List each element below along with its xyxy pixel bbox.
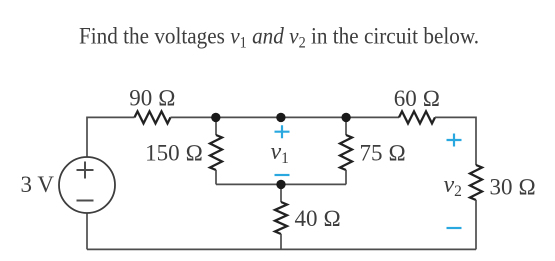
- svg-text:3 V: 3 V: [21, 172, 55, 197]
- wire: top rail middle segment (90ohm to 60ohm): [171, 116, 400, 118]
- svg-text:75 Ω: 75 Ω: [360, 141, 406, 166]
- svg-text:v2: v2: [444, 172, 462, 200]
- wire: middle rail: [216, 183, 346, 185]
- node: junction dot A (top rail / 150ohm): [211, 113, 220, 122]
- resistor R=30ohm (vertical zigzag): [470, 165, 482, 200]
- voltage source 3V (circle): [59, 157, 115, 213]
- node: junction dot C (top rail / 75ohm): [341, 113, 350, 122]
- svg-text:90 Ω: 90 Ω: [129, 86, 175, 111]
- wire: left rail bottom (bottom rail up to source): [86, 213, 88, 249]
- label v2 plus sign: [447, 134, 462, 147]
- svg-text:150 Ω: 150 Ω: [145, 141, 203, 166]
- wire: top rail right segment + right rail down to 30ohm: [435, 117, 476, 165]
- wire: 150ohm branch bottom lead: [215, 170, 217, 184]
- node: junction dot B (top rail / v1 plus): [276, 113, 285, 122]
- wire: right rail bottom (30ohm to bottom rail): [475, 200, 477, 249]
- svg-text:v1: v1: [271, 139, 289, 167]
- node: junction dot D (middle rail / 40ohm): [276, 180, 285, 189]
- svg-text:Find the voltages v1 and v2 in: Find the voltages v1 and v2 in the circu…: [79, 23, 479, 52]
- resistor R=75ohm (vertical zigzag): [340, 135, 352, 170]
- title: problem statement: [79, 23, 479, 52]
- svg-text:30 Ω: 30 Ω: [490, 175, 536, 200]
- wire: bottom rail: [87, 248, 476, 250]
- resistor R=60ohm (horizontal zigzag): [399, 111, 435, 123]
- wire: 40ohm branch top lead: [280, 184, 282, 202]
- wire: 150ohm branch top lead: [215, 117, 217, 135]
- label + inside source: [77, 162, 94, 179]
- wire: 40ohm branch bottom lead: [280, 234, 282, 249]
- svg-text:60 Ω: 60 Ω: [394, 86, 440, 111]
- wire: top rail left segment (source top to 90ohm): [87, 117, 135, 157]
- label v1 plus sign: [275, 125, 290, 138]
- label - inside source: [77, 200, 94, 202]
- wire: 75ohm branch top lead: [345, 117, 347, 135]
- resistor R=90ohm (horizontal zigzag): [135, 111, 171, 123]
- wire: 75ohm branch bottom lead: [345, 170, 347, 184]
- label v2 minus sign: [447, 227, 462, 229]
- label v1 minus sign: [275, 174, 290, 176]
- resistor R=150ohm (vertical zigzag): [210, 135, 222, 170]
- resistor R=40ohm (vertical zigzag): [275, 202, 287, 234]
- svg-text:40 Ω: 40 Ω: [295, 206, 341, 231]
